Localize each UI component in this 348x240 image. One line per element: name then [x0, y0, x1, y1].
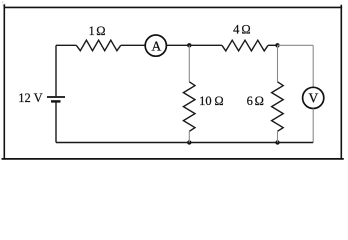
- node junction dot top-left: [187, 43, 191, 47]
- wire: node 1 to 4-ohm resistor: [189, 44, 222, 46]
- wire: voltmeter to bottom-right corner (grey): [312, 109, 314, 143]
- wire: top-left corner to 1-ohm resistor: [56, 44, 76, 46]
- svg-text:4: 4: [233, 23, 240, 37]
- wire: 10-ohm branch lower (grey): [188, 131, 190, 142]
- svg-text:Ω: Ω: [96, 24, 105, 38]
- resistor R 6-ohm zigzag: [272, 82, 284, 132]
- svg-text:10: 10: [199, 94, 212, 108]
- node junction dot top-right: [275, 43, 279, 47]
- svg-text:Ω: Ω: [214, 94, 223, 108]
- bottom wire: [56, 142, 313, 144]
- svg-text:6: 6: [247, 94, 253, 108]
- battery short plate: [51, 100, 61, 102]
- border frame: [2, 4, 344, 159]
- wire: 6-ohm branch upper (grey): [277, 45, 279, 82]
- node junction dot bottom-right: [275, 140, 279, 144]
- node junction dot bottom-left: [187, 140, 191, 144]
- wire: right side down to voltmeter (grey): [312, 45, 314, 87]
- svg-text:V: V: [309, 90, 319, 105]
- svg-text:1: 1: [88, 24, 94, 38]
- resistor R 1-ohm zigzag: [76, 40, 121, 51]
- resistor R 10-ohm zigzag: [183, 82, 195, 132]
- wire: ammeter to node 1: [167, 44, 190, 46]
- voltmeter V circle: [303, 87, 324, 108]
- wire: 10-ohm branch upper (grey): [188, 45, 190, 82]
- noise speckle top-left: [2, 2, 6, 7]
- wire: battery branch bottom: [55, 102, 57, 142]
- wire: battery branch top: [55, 45, 57, 96]
- battery long plate: [47, 96, 65, 98]
- svg-text:Ω: Ω: [241, 23, 250, 37]
- svg-text:Ω: Ω: [255, 94, 264, 108]
- svg-text:A: A: [152, 38, 162, 53]
- wire: 4-ohm to node 2: [268, 44, 277, 46]
- svg-text:12 V: 12 V: [18, 91, 42, 105]
- wire: 1-ohm to ammeter: [121, 44, 145, 46]
- ammeter A circle: [145, 35, 166, 56]
- wire: node 2 to top-right corner (grey): [278, 44, 314, 46]
- wire: 6-ohm branch lower (grey): [277, 131, 279, 142]
- resistor R 4-ohm zigzag: [222, 40, 268, 51]
